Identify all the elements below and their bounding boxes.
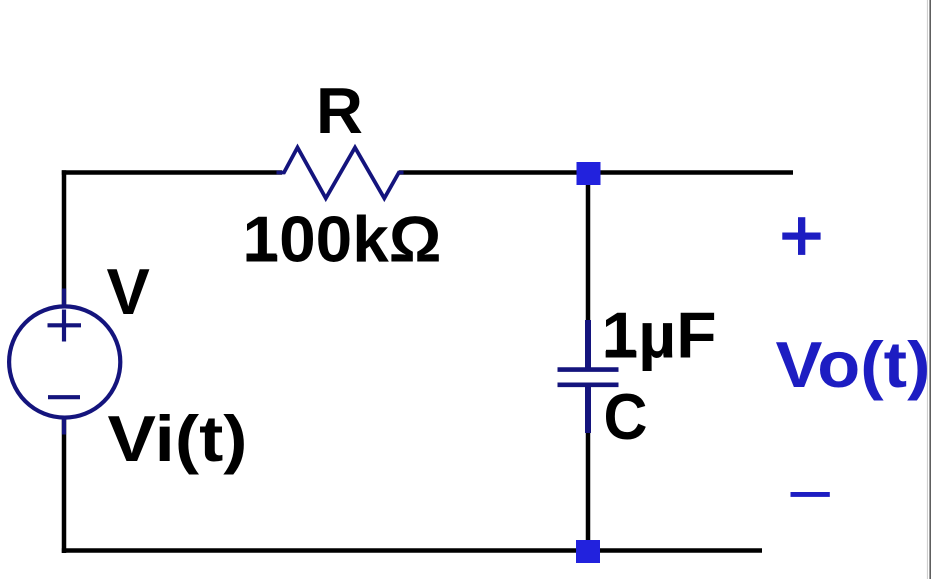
- window edge line: [927, 0, 931, 579]
- voltage source V1 circle: [9, 306, 120, 417]
- svg-text:1µF: 1µF: [602, 298, 717, 371]
- capacitor C1 bottom lead: [585, 387, 591, 434]
- label V: [107, 255, 150, 328]
- node junction bottom: [576, 540, 600, 563]
- output plus terminal: [782, 217, 820, 255]
- output minus terminal: [791, 492, 830, 497]
- label C: [604, 380, 648, 453]
- node junction top: [577, 162, 601, 185]
- resistor R1 zigzag: [277, 148, 404, 199]
- capacitor C1 bottom plate: [558, 382, 619, 387]
- wire bottom horizontal: [62, 548, 762, 553]
- wire top right horizontal: [399, 170, 793, 175]
- label R: [316, 74, 363, 147]
- svg-text:C: C: [604, 380, 648, 453]
- svg-text:Vo(t): Vo(t): [776, 328, 931, 401]
- svg-text:R: R: [316, 74, 363, 147]
- voltage source minus sign: [48, 395, 80, 399]
- value label 100k&#937;: [243, 203, 442, 276]
- voltage source bottom lead: [62, 416, 66, 435]
- svg-text:V: V: [107, 255, 150, 328]
- svg-text:100kΩ: 100kΩ: [243, 203, 442, 276]
- label Vi(t): [108, 402, 248, 475]
- wire top left horizontal: [62, 170, 282, 175]
- value label 1uF: [602, 298, 717, 371]
- label Vo(t): [776, 328, 931, 401]
- wire capacitor branch upper: [586, 171, 591, 323]
- voltage source top lead: [62, 289, 66, 307]
- capacitor C1 top plate: [558, 367, 619, 372]
- svg-text:Vi(t): Vi(t): [108, 402, 248, 475]
- voltage source plus sign: [48, 310, 82, 342]
- wire left vertical: [62, 170, 67, 553]
- wire capacitor branch lower: [586, 432, 591, 553]
- capacitor C1 top lead: [585, 320, 591, 368]
